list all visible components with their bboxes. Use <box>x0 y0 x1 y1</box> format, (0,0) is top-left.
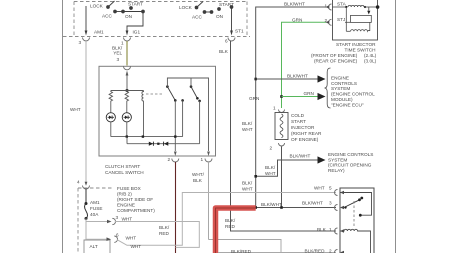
svg-text:AM1: AM1 <box>90 200 100 205</box>
svg-text:WHT: WHT <box>242 187 253 192</box>
svg-text:ACC: ACC <box>102 14 113 19</box>
svg-text:5: 5 <box>329 186 332 191</box>
wire GRN from STJ <box>282 22 327 108</box>
svg-text:COMPARTMENT): COMPARTMENT) <box>117 208 155 213</box>
wire BLK/WHT bottom run <box>256 207 336 209</box>
wire fuse to pin 3 <box>86 219 108 222</box>
diode D4 <box>163 142 165 146</box>
svg-text:WHT: WHT <box>131 244 142 249</box>
svg-text:LOCK: LOCK <box>90 4 104 9</box>
wire BLK from ST1 down and to relay pin1 <box>231 41 337 231</box>
svg-text:1: 1 <box>329 227 332 232</box>
wire fuse to ALT <box>85 219 87 241</box>
wire WHT pin3 run <box>115 222 200 248</box>
svg-text:3: 3 <box>117 57 120 62</box>
node BLK/WHT to ECU branch <box>254 78 257 81</box>
svg-text:3: 3 <box>329 201 332 206</box>
resistor R1 <box>109 91 112 113</box>
svg-text:2: 2 <box>168 157 171 162</box>
svg-text:WHT: WHT <box>126 235 137 240</box>
wire left page border vertical <box>62 0 64 253</box>
svg-text:2: 2 <box>329 249 332 253</box>
clutch internals entry arrow <box>126 71 129 76</box>
svg-text:IG1: IG1 <box>133 30 141 35</box>
svg-text:ACC: ACC <box>192 15 203 20</box>
svg-text:2: 2 <box>270 146 273 151</box>
svg-text:OF ENGINE): OF ENGINE) <box>291 137 319 142</box>
relay coil K1 <box>142 91 144 137</box>
svg-text:GRN: GRN <box>304 91 314 96</box>
svg-text:STA: STA <box>337 2 347 7</box>
ECU text block <box>331 75 375 107</box>
svg-text:BLK/: BLK/ <box>242 181 253 186</box>
svg-text:WHT: WHT <box>265 171 276 176</box>
connector STJ pin2 <box>329 19 332 25</box>
svg-text:BLK/WHT: BLK/WHT <box>290 154 311 159</box>
svg-text:WHT: WHT <box>70 107 81 112</box>
time switch bimetal element box <box>351 15 372 22</box>
arrow to circuit opening relay <box>318 156 326 163</box>
svg-text:FUSE: FUSE <box>90 206 103 211</box>
diode D3 <box>149 142 153 146</box>
relay actuation dashed <box>353 201 355 228</box>
connector injector pin 2 <box>279 143 285 146</box>
svg-text:(2.4L): (2.4L) <box>364 53 377 58</box>
cold start injector U2 <box>279 110 285 113</box>
time switch bimetal contact <box>368 7 370 11</box>
wire bottom BLK/RED to relay pin2 <box>218 252 336 253</box>
svg-text:BLK/: BLK/ <box>159 225 170 230</box>
svg-text:BLK/WHT: BLK/WHT <box>261 202 282 207</box>
svg-text:(REAR OF ENGINE): (REAR OF ENGINE) <box>314 58 358 63</box>
svg-text:STJ: STJ <box>337 17 345 22</box>
svg-text:START: START <box>128 2 143 7</box>
svg-text:COLD: COLD <box>291 113 305 118</box>
svg-text:6: 6 <box>116 233 119 238</box>
diode row <box>126 137 128 144</box>
svg-text:START: START <box>291 119 306 124</box>
svg-text:(RIGHT REAR: (RIGHT REAR <box>291 131 322 136</box>
svg-text:BLK/RED: BLK/RED <box>305 249 326 253</box>
svg-text:ON: ON <box>216 14 223 19</box>
svg-text:INJECTOR: INJECTOR <box>291 125 315 130</box>
relay connectors pins 5,3,1,2 <box>335 190 338 253</box>
connector AM1 pin 3 <box>83 38 90 42</box>
svg-text:BLK: BLK <box>219 49 229 54</box>
svg-text:3: 3 <box>79 40 82 45</box>
svg-text:1: 1 <box>201 157 204 162</box>
svg-text:SYSTEM: SYSTEM <box>331 86 350 91</box>
dashed actuation link <box>146 93 164 95</box>
ignition switch dashed enclosure <box>74 2 247 37</box>
clutch internal top-right rail <box>167 78 208 151</box>
ALT box <box>84 240 110 253</box>
svg-text:BLK/: BLK/ <box>265 165 276 170</box>
svg-text:YEL: YEL <box>113 51 122 56</box>
clutch pin 2 exit <box>174 152 177 157</box>
ignition switch 1 (AM1/IG1 section) <box>107 1 145 36</box>
fuse AM1 40A <box>85 189 87 203</box>
wire WHT/BLK from clutch pin1 <box>208 162 210 240</box>
wire AM1 drop from switch1 <box>85 6 87 31</box>
wire BLK/RED from clutch pin2 <box>175 162 177 253</box>
svg-text:(FRONT OF ENGINE): (FRONT OF ENGINE) <box>311 53 358 58</box>
connector at clutch box entry <box>124 66 131 70</box>
relay coil K2 <box>340 229 371 253</box>
connector fuse box pin 6 <box>86 238 107 240</box>
svg-text:BLK/RED: BLK/RED <box>231 249 252 253</box>
svg-text:3: 3 <box>116 215 119 220</box>
wire WHT pin6 run to relay pin5 <box>117 193 336 246</box>
svg-text:RED: RED <box>159 231 170 236</box>
svg-text:MODULE): MODULE) <box>331 97 353 102</box>
LED D2 <box>122 113 131 122</box>
svg-text:BLK/: BLK/ <box>225 218 236 223</box>
svg-text:ST1: ST1 <box>235 29 244 34</box>
svg-text:WHT/: WHT/ <box>192 172 205 177</box>
wire right page border vertical <box>395 0 397 253</box>
connector dashed line <box>63 36 250 38</box>
svg-text:LOCK: LOCK <box>179 5 193 10</box>
svg-text:CLUTCH START: CLUTCH START <box>105 164 140 169</box>
svg-text:TIME SWITCH: TIME SWITCH <box>345 47 376 52</box>
arrow to ECU (BLK/WHT) <box>318 75 326 82</box>
clutch switch SW-A <box>166 85 169 88</box>
connector IG1 pin 1 <box>124 38 131 42</box>
fuse box dashed enclosure <box>78 188 114 253</box>
svg-text:BLK: BLK <box>193 178 203 183</box>
wire BLK/WHT branch to circuit opening relay <box>256 160 318 176</box>
clutch pin 1 exit <box>207 152 210 157</box>
svg-text:CONTROLS: CONTROLS <box>331 81 357 86</box>
svg-text:CANCEL SWITCH: CANCEL SWITCH <box>105 170 144 175</box>
wire BLK/WHT from STA line down left column <box>256 7 326 208</box>
component box B bottom center (cut off) <box>209 240 282 253</box>
svg-text:1: 1 <box>273 106 276 111</box>
svg-text:GRN: GRN <box>249 96 259 101</box>
svg-text:GRN: GRN <box>292 17 302 22</box>
connector fuse box pin 3 <box>112 218 115 224</box>
LED D1 <box>106 113 115 122</box>
svg-text:BLK/WHT: BLK/WHT <box>287 74 308 79</box>
svg-text:(ENGINE CONTROL: (ENGINE CONTROL <box>331 92 375 97</box>
svg-text:RELAY): RELAY) <box>328 168 345 173</box>
svg-text:(RIGHT SIDE OF: (RIGHT SIDE OF <box>117 197 153 202</box>
svg-text:6: 6 <box>225 39 228 44</box>
svg-text:WHT: WHT <box>122 217 133 222</box>
LED drop wires <box>110 122 112 137</box>
connector ST1 pin 6 <box>228 38 235 42</box>
resistor R2 <box>125 91 128 113</box>
circuit opening relay box <box>340 188 374 253</box>
svg-text:(3.0L): (3.0L) <box>364 58 377 63</box>
svg-text:FUSE BOX: FUSE BOX <box>117 186 142 191</box>
wire highlighted BLK/RED (red trace) <box>216 208 256 253</box>
time switch internals: heater coil 1 <box>333 6 347 8</box>
svg-text:ON: ON <box>125 14 132 19</box>
svg-text:4: 4 <box>77 180 80 185</box>
svg-text:START: START <box>219 2 234 7</box>
svg-text:ALT: ALT <box>90 244 98 249</box>
svg-text:WHT: WHT <box>242 127 253 132</box>
connector fuse box pin 4 <box>85 182 88 186</box>
clutch start cancel switch box <box>99 66 216 156</box>
svg-text:"ENGINE ECU": "ENGINE ECU" <box>331 103 364 108</box>
wire injector pin2 down <box>281 147 283 208</box>
svg-text:(R/B 2): (R/B 2) <box>117 192 132 197</box>
svg-text:WHT: WHT <box>314 186 325 191</box>
connector STA pin1 <box>329 4 332 10</box>
svg-text:START INJECTOR: START INJECTOR <box>336 42 376 47</box>
svg-text:BLK/WHT: BLK/WHT <box>284 2 305 7</box>
time switch heater coil 2 <box>345 7 347 31</box>
clutch internal rail <box>111 136 183 138</box>
svg-text:BLK: BLK <box>317 227 327 232</box>
arrow to ECU (GRN) <box>318 93 326 100</box>
relay internal contact <box>340 193 372 216</box>
wire WHT left vertical <box>85 41 87 183</box>
svg-text:40A: 40A <box>90 212 99 217</box>
svg-text:BLK/: BLK/ <box>242 121 253 126</box>
svg-text:RED: RED <box>225 224 236 229</box>
svg-text:AM1: AM1 <box>94 30 104 35</box>
ignition switch 2 (ST section) <box>195 2 233 36</box>
clutch internal top rail <box>111 90 144 92</box>
wire BLK/YEL IG1 to clutch box <box>126 41 128 66</box>
clutch switch SW-B <box>190 85 193 88</box>
svg-text:ENGINE: ENGINE <box>117 203 135 208</box>
start injector time switch U1 <box>333 0 378 40</box>
node GRN to ECU branch <box>280 95 283 98</box>
svg-text:ENGINE: ENGINE <box>331 75 349 80</box>
svg-text:BLK/WHT: BLK/WHT <box>302 201 323 206</box>
ECU brace <box>325 68 331 108</box>
